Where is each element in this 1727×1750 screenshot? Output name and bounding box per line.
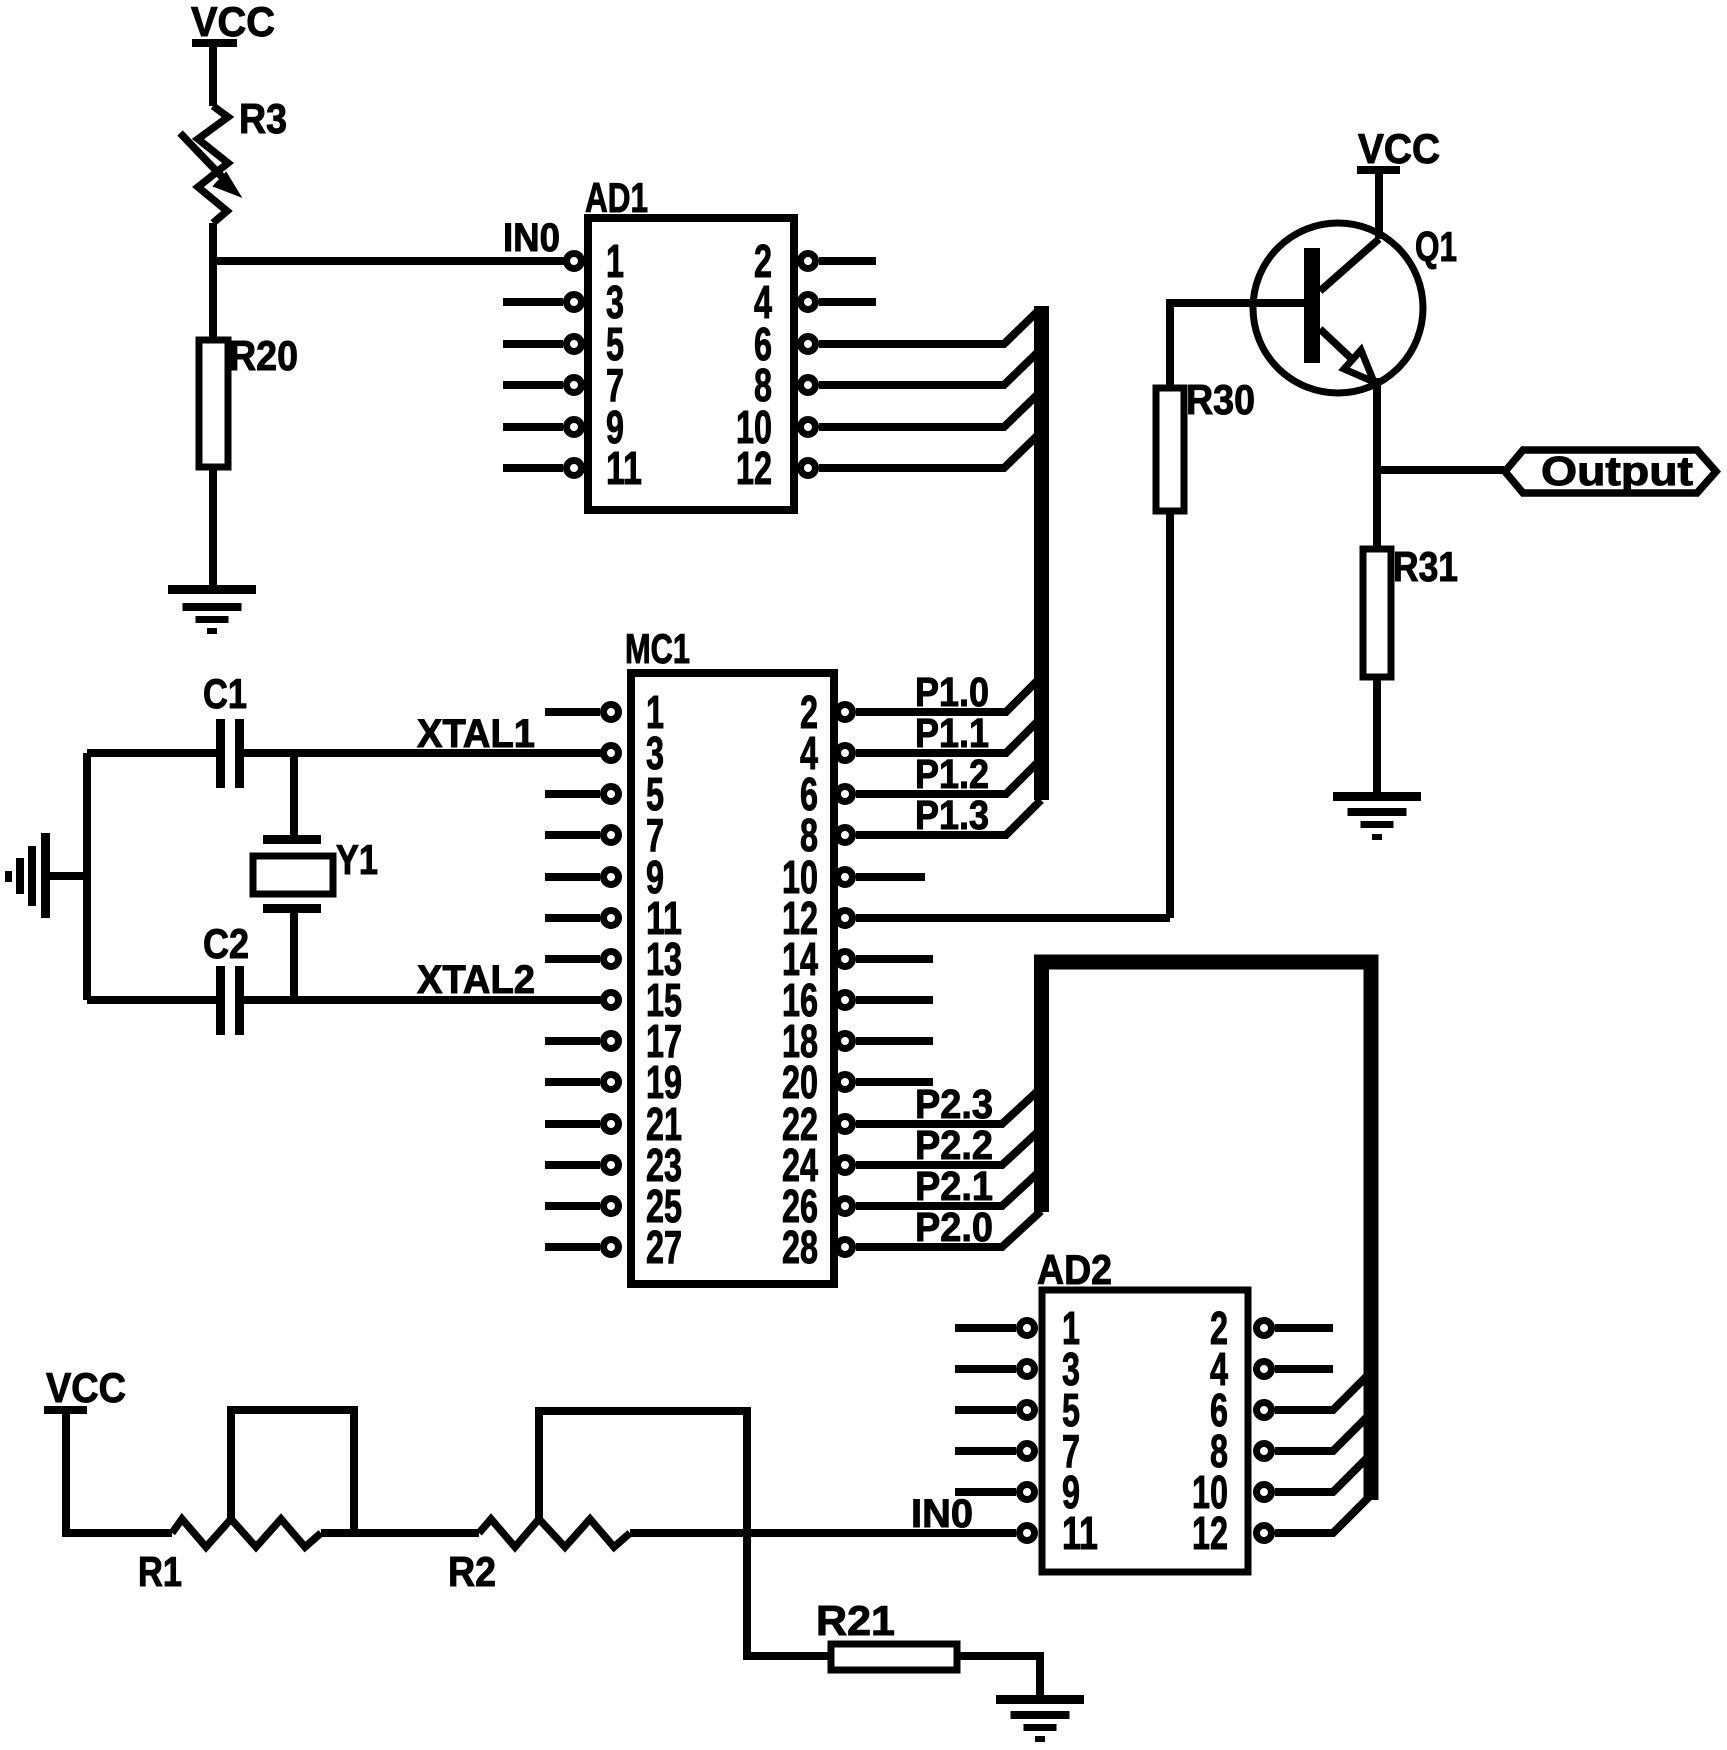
wire R2 tap to R21 (747, 1533, 831, 1656)
node IN0 wire to AD1 pin 1 (213, 257, 564, 265)
MC1 pin 27 (545, 1221, 682, 1273)
svg-text:12: 12 (736, 442, 772, 494)
MC1 pin 2 (800, 677, 1041, 738)
AD2 pin 3 (955, 1343, 1080, 1395)
wire R30 to Q1 base (1170, 303, 1306, 388)
svg-text:C1: C1 (203, 670, 247, 717)
svg-text:P2.2: P2.2 (915, 1122, 993, 1168)
MC1 pin 25 (545, 1180, 682, 1232)
AD2 pin 2 (1210, 1302, 1333, 1354)
MC1 pin 12 (782, 892, 1170, 944)
AD2 pin 11 (1020, 1507, 1099, 1559)
svg-text:Q1: Q1 (1415, 223, 1457, 270)
svg-text:11: 11 (1062, 1507, 1098, 1559)
svg-text:VCC: VCC (1358, 125, 1440, 172)
svg-text:P2.1: P2.1 (915, 1163, 993, 1209)
svg-text:IN0: IN0 (503, 216, 560, 260)
wire R1 to R2 (321, 1529, 479, 1537)
resistor R30 (1156, 376, 1255, 511)
wire R21 to ground (957, 1656, 1040, 1699)
ground (below R31) (1333, 792, 1421, 840)
svg-text:VCC: VCC (46, 1364, 126, 1411)
wire Q1 emitter to R31 (1373, 378, 1381, 553)
svg-text:28: 28 (782, 1221, 818, 1273)
svg-text:R1: R1 (138, 1548, 182, 1595)
MC1 pin 9 (545, 851, 664, 903)
MC1 pin 23 (545, 1139, 682, 1191)
wire VCC to R3 (209, 43, 217, 106)
bus wire AD1 to MC1 (vertical) (1034, 306, 1049, 800)
power symbol VCC (Q1) (1357, 125, 1440, 172)
MC1 pin 18 (782, 1015, 933, 1067)
svg-text:R2: R2 (448, 1548, 496, 1595)
svg-text:P1.1: P1.1 (915, 710, 989, 756)
AD1 pin 8 (754, 350, 1040, 411)
AD2 pin 6 (1210, 1372, 1371, 1436)
wire R2 to AD2 pin 11 (IN0) (630, 1529, 1016, 1537)
resistor R21 (816, 1597, 957, 1670)
MC1 pin 16 (782, 974, 933, 1026)
MC1 pin 3 (604, 727, 665, 779)
AD2 pin 10 (1192, 1454, 1371, 1518)
wire XTAL1 node to Y1 (290, 753, 298, 839)
crystal Y1 (253, 835, 378, 913)
wire C2 to MC1 pin 15 (XTAL2) (244, 996, 601, 1004)
svg-text:XTAL1: XTAL1 (417, 712, 535, 756)
svg-text:C2: C2 (203, 920, 249, 967)
AD2 pin 9 (955, 1466, 1080, 1518)
wire VCC to R1 (66, 1410, 172, 1533)
MC1 pin 17 (545, 1015, 682, 1067)
MC1 pin 7 (545, 809, 664, 861)
svg-text:R20: R20 (229, 332, 298, 379)
svg-text:MC1: MC1 (625, 625, 690, 672)
MC1 pin 5 (545, 768, 664, 820)
AD2 pin 5 (955, 1384, 1080, 1436)
svg-text:R21: R21 (816, 1597, 895, 1644)
svg-text:P2.3: P2.3 (915, 1081, 993, 1127)
AD1 pin 3 (503, 276, 624, 328)
MC1 pin 8 (800, 800, 1041, 861)
ground (below R21) (996, 1695, 1084, 1742)
AD1 pin 5 (503, 318, 624, 370)
AD1 pin 12 (736, 433, 1040, 494)
AD2 pin 1 (955, 1302, 1080, 1354)
AD1 pin 9 (503, 401, 624, 453)
capacitor C1 (87, 670, 247, 788)
MC1 pin 21 (545, 1098, 682, 1150)
wire Q1 collector to VCC (1375, 170, 1383, 239)
MC1 pin 19 (545, 1056, 682, 1108)
power symbol VCC (top left) (191, 0, 275, 45)
MC1 pin 28 (782, 1211, 1041, 1273)
resistor R20 (199, 332, 298, 467)
svg-text:P2.0: P2.0 (915, 1204, 993, 1250)
svg-text:Y1: Y1 (336, 836, 378, 883)
svg-text:IN0: IN0 (911, 1492, 973, 1536)
op-amp ADC IC AD1 (585, 174, 794, 510)
wire node IN0 to R20 (209, 261, 217, 344)
wire R3 to node IN0 (209, 223, 217, 261)
ground (left, crystal) (5, 833, 50, 918)
power symbol VCC (bottom left) (44, 1364, 126, 1411)
AD2 pin 8 (1210, 1413, 1371, 1477)
bus wire MC1 to AD2 (L-shape) (1042, 962, 1372, 1500)
resistor R31 (1363, 543, 1458, 677)
svg-text:AD2: AD2 (1037, 1246, 1112, 1293)
svg-text:11: 11 (606, 442, 642, 494)
AD2 pin 7 (955, 1425, 1080, 1477)
microcontroller IC MC1 (625, 625, 834, 1284)
wire R31 to ground (1373, 677, 1381, 796)
port Output (1505, 448, 1716, 494)
MC1 pin 20 (782, 1056, 933, 1108)
MC1 pin 6 (800, 759, 1041, 820)
wire C1 to MC1 pin 3 (XTAL1) (244, 749, 601, 757)
svg-text:P1.0: P1.0 (915, 669, 989, 715)
AD1 pin 4 (754, 276, 876, 328)
AD1 pin 11 (503, 442, 642, 494)
svg-text:Output: Output (1541, 448, 1693, 494)
resistor R1 (potentiometer) (138, 1410, 354, 1595)
wire emitter node to Output (1377, 466, 1506, 474)
wire rail to ground (49, 872, 87, 880)
MC1 pin 14 (782, 933, 933, 985)
MC1 pin 4 (800, 718, 1041, 779)
MC1 pin 22 (782, 1088, 1041, 1150)
svg-text:R3: R3 (239, 95, 287, 142)
svg-text:AD1: AD1 (585, 174, 648, 221)
ground (below R20) (168, 585, 256, 634)
svg-text:XTAL2: XTAL2 (417, 958, 535, 1002)
AD2 pin 4 (1210, 1343, 1333, 1395)
wire Y1 to XTAL2 node (290, 913, 298, 1000)
MC1 pin 1 (545, 686, 664, 738)
svg-text:27: 27 (646, 1221, 682, 1273)
ADC IC AD2 (1037, 1246, 1248, 1572)
resistor R2 (potentiometer) (448, 1411, 747, 1595)
capacitor C2 (87, 920, 249, 1035)
svg-text:R30: R30 (1186, 376, 1255, 423)
AD1 pin 2 (754, 235, 876, 287)
MC1 pin 15 (604, 974, 683, 1026)
AD1 pin 10 (736, 392, 1040, 453)
AD2 pin 12 (1192, 1495, 1371, 1559)
svg-text:VCC: VCC (191, 0, 275, 45)
transistor Q1 (1253, 223, 1457, 393)
MC1 pin 26 (782, 1170, 1041, 1232)
MC1 pin 13 (545, 933, 682, 985)
wire MC1 pin 12 to R30 (1166, 511, 1174, 918)
svg-text:R31: R31 (1393, 543, 1458, 590)
svg-text:P1.2: P1.2 (915, 751, 989, 797)
svg-text:12: 12 (1192, 1507, 1228, 1559)
MC1 pin 10 (782, 851, 925, 903)
svg-text:P1.3: P1.3 (915, 792, 989, 838)
MC1 pin 24 (782, 1129, 1041, 1191)
resistor R3 (potentiometer) (180, 95, 287, 223)
MC1 pin 11 (545, 892, 682, 944)
wire left rail (C1-C2) (83, 753, 91, 1000)
AD1 pin 6 (754, 309, 1040, 370)
AD1 pin 1 (567, 235, 625, 287)
AD1 pin 7 (503, 359, 624, 411)
wire R20 to ground (209, 467, 217, 589)
